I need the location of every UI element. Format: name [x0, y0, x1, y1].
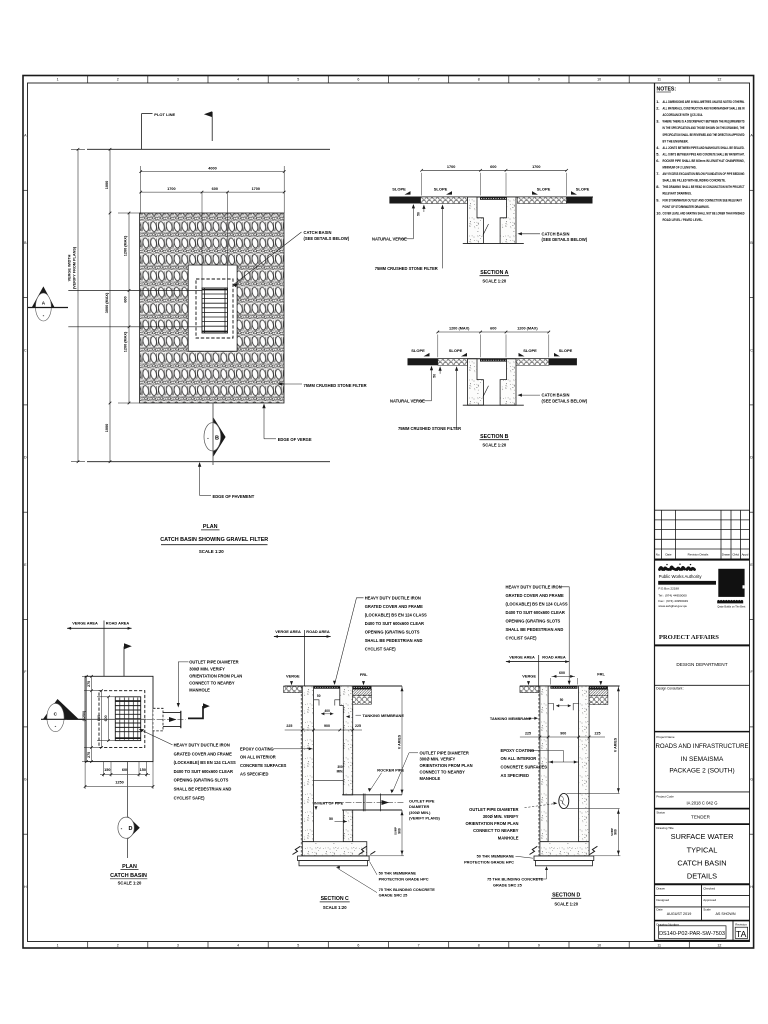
svg-text:300Ø MIN. VERIFY: 300Ø MIN. VERIFY	[483, 814, 519, 819]
svg-text:COVER LEVEL AND GRATING SHALL: COVER LEVEL AND GRATING SHALL NOT BE LOW…	[663, 210, 745, 215]
left dims	[86, 676, 88, 761]
svg-text:Drawn: Drawn	[656, 887, 665, 891]
svg-text:Designed: Designed	[656, 898, 669, 902]
grate	[480, 359, 507, 362]
dim 4000	[141, 171, 285, 173]
svg-text:225: 225	[286, 724, 292, 728]
svg-text:900: 900	[324, 724, 330, 728]
svg-text:75 THK BLINDING CONCRETE: 75 THK BLINDING CONCRETE	[487, 877, 544, 882]
catch basin label	[233, 232, 302, 285]
svg-text:(SEE DETAILS BELOW): (SEE DETAILS BELOW)	[542, 398, 588, 403]
svg-text:GRATED COVER AND FRAME: GRATED COVER AND FRAME	[174, 751, 232, 756]
svg-text:AS SPECIFIED: AS SPECIFIED	[240, 771, 268, 776]
svg-text:OUTLET PIPE DIAMETER: OUTLET PIPE DIAMETER	[420, 750, 469, 755]
svg-text:9: 9	[538, 943, 540, 947]
svg-text:1000: 1000	[105, 181, 109, 189]
catch basin walls	[468, 359, 484, 405]
svg-text:225: 225	[595, 731, 601, 735]
svg-text:Drawn: Drawn	[722, 552, 731, 556]
svg-text:POINT OF STORMWATER DRAWINGS.: POINT OF STORMWATER DRAWINGS.	[663, 204, 710, 209]
svg-text:TYPICAL: TYPICAL	[687, 846, 718, 855]
svg-text:D400 TO SUIT 600x600 CLEAR: D400 TO SUIT 600x600 CLEAR	[174, 769, 233, 774]
svg-text:900: 900	[560, 731, 566, 735]
section A	[372, 165, 593, 284]
section marker D	[127, 762, 129, 858]
road construction block	[353, 686, 372, 689]
svg-text:THIS DRAWING SHALL BE READ IN: THIS DRAWING SHALL BE READ IN CONJUNCTIO…	[663, 184, 745, 189]
svg-text:600: 600	[559, 671, 565, 675]
svg-text:VERGE AREA: VERGE AREA	[72, 621, 98, 626]
svg-text:CONNECT TO NEARBY: CONNECT TO NEARBY	[189, 681, 235, 686]
svg-text:600: 600	[104, 715, 108, 721]
break marks	[293, 846, 301, 854]
section marker A	[32, 286, 55, 307]
dashed clear-opening box	[196, 279, 233, 338]
svg-text:D: D	[750, 456, 753, 460]
svg-text:VERGE AREA: VERGE AREA	[509, 654, 535, 659]
ground line	[520, 685, 620, 687]
corner bracket + flag	[188, 706, 203, 718]
svg-text:(LOCKABLE) BS EN 124 CLASS: (LOCKABLE) BS EN 124 CLASS	[365, 612, 427, 617]
svg-text:8: 8	[478, 943, 480, 947]
svg-text:SECTION B: SECTION B	[480, 434, 508, 440]
svg-text:75 THK BLINDING CONCRETE: 75 THK BLINDING CONCRETE	[379, 887, 436, 892]
svg-text:DETAILS: DETAILS	[687, 872, 717, 881]
svg-text:D400 TO SUIT 600x600 CLEAR: D400 TO SUIT 600x600 CLEAR	[365, 621, 424, 626]
svg-text:C: C	[750, 348, 753, 352]
road edge line top	[87, 148, 330, 150]
svg-text:8: 8	[478, 78, 480, 82]
blinding	[535, 861, 592, 866]
svg-text:2: 2	[117, 78, 119, 82]
grate	[202, 288, 228, 333]
svg-text:GRATED COVER AND FRAME: GRATED COVER AND FRAME	[365, 604, 423, 609]
225/900/225 dim	[520, 736, 605, 738]
svg-text:OPENING (GRATING SLOTS: OPENING (GRATING SLOTS	[506, 619, 561, 624]
svg-text:ORIENTATION FROM PLAN: ORIENTATION FROM PLAN	[420, 763, 473, 768]
svg-text:VERGE WIDTH: VERGE WIDTH	[68, 254, 72, 281]
svg-text:EDGE OF VERGE: EDGE OF VERGE	[278, 437, 312, 442]
svg-text:150: 150	[104, 768, 110, 772]
svg-text:C: C	[24, 348, 27, 352]
outlet pipe (plan)	[153, 708, 163, 731]
75mm crushed stone filter label	[280, 383, 303, 385]
svg-text:12: 12	[717, 78, 721, 82]
svg-text:EPOXY COATING: EPOXY COATING	[501, 748, 535, 753]
svg-text:FOR STORMWATER OUTLET AND CONN: FOR STORMWATER OUTLET AND CONNECTION SEE…	[663, 197, 743, 202]
svg-text:PROTECTION GRADE HPC: PROTECTION GRADE HPC	[464, 859, 514, 864]
svg-text:275: 275	[87, 681, 91, 687]
svg-text:ROAD LEVEL / PAVED LEVEL.: ROAD LEVEL / PAVED LEVEL.	[663, 217, 704, 222]
svg-text:CYCLIST SAFE): CYCLIST SAFE)	[506, 636, 538, 641]
svg-text:3000 (MAX): 3000 (MAX)	[105, 292, 109, 313]
svg-text:Public Works Authority: Public Works Authority	[659, 574, 703, 579]
svg-text:1700: 1700	[167, 187, 175, 191]
ground line	[285, 685, 402, 687]
svg-text:600: 600	[490, 165, 496, 169]
catch basin outer box	[85, 676, 153, 761]
pipe level lines	[567, 792, 620, 794]
svg-text:PLAN: PLAN	[122, 864, 137, 870]
svg-text:7.: 7.	[656, 171, 659, 176]
svg-text:11: 11	[657, 943, 661, 947]
svg-text:CYCLIST SAFE): CYCLIST SAFE)	[365, 647, 397, 652]
leader lines to grate	[68, 290, 202, 292]
svg-text:1700: 1700	[252, 187, 260, 191]
svg-text:Project Code: Project Code	[656, 794, 674, 798]
section marker C	[43, 699, 79, 719]
svg-text:OPENING (GRATING SLOTS: OPENING (GRATING SLOTS	[174, 778, 229, 783]
svg-text:Project Name: Project Name	[656, 735, 675, 739]
crushed stone strips	[438, 359, 468, 366]
svg-text:ROAD AREA: ROAD AREA	[306, 629, 330, 634]
svg-text:50: 50	[416, 212, 420, 216]
svg-text:D: D	[129, 826, 133, 832]
svg-text:DS140-P02-PAR-SW-7503: DS140-P02-PAR-SW-7503	[659, 931, 725, 937]
svg-text:B: B	[215, 435, 219, 441]
svg-text:ALL DIMENSIONS ARE IN MILLIMET: ALL DIMENSIONS ARE IN MILLIMETRES UNLESS…	[663, 99, 745, 104]
svg-text:1: 1	[57, 943, 59, 947]
svg-text:4: 4	[237, 78, 239, 82]
svg-text:WHERE THERE IS A DISCREPANCY B: WHERE THERE IS A DISCREPANCY BETWEEN THE…	[663, 119, 745, 124]
neck steps	[314, 700, 319, 706]
svg-text:ON ALL INTERIOR: ON ALL INTERIOR	[501, 756, 537, 761]
title block	[655, 560, 750, 941]
svg-text:50: 50	[560, 698, 564, 702]
svg-text:50 THK MEMBRANE: 50 THK MEMBRANE	[477, 854, 515, 859]
section A ground line	[389, 196, 593, 198]
dashed opening box	[99, 691, 145, 748]
svg-text:SLOPE: SLOPE	[434, 186, 448, 191]
svg-text:BY THE ENGINEER.: BY THE ENGINEER.	[663, 138, 689, 143]
svg-text:SHALL BE PEDESTRIAN AND: SHALL BE PEDESTRIAN AND	[365, 638, 423, 643]
svg-text:(VERIFY FROM PLANS): (VERIFY FROM PLANS)	[73, 246, 77, 289]
svg-text:3: 3	[177, 78, 179, 82]
svg-text:7: 7	[418, 943, 420, 947]
svg-text:300Ø MIN. VERIFY: 300Ø MIN. VERIFY	[189, 667, 225, 672]
svg-text:ALL JOINTS BETWEEN PIPES AND C: ALL JOINTS BETWEEN PIPES AND CONCRETE SH…	[663, 151, 745, 156]
asphalt bars	[408, 359, 438, 366]
chamber floor line	[314, 780, 344, 782]
section B ground line	[408, 358, 578, 360]
svg-text:CYCLIST SAFE): CYCLIST SAFE)	[174, 795, 206, 800]
left wall	[302, 686, 313, 842]
svg-text:TENDER: TENDER	[691, 815, 711, 820]
bottom slab	[540, 842, 589, 856]
svg-text:SHALL BE PEDESTRIAN AND: SHALL BE PEDESTRIAN AND	[506, 627, 564, 632]
svg-text:9: 9	[538, 78, 540, 82]
svg-text:IA 2018 C 042 G: IA 2018 C 042 G	[687, 800, 718, 805]
svg-text:ROADS AND INFRASTRUCTURE: ROADS AND INFRASTRUCTURE	[656, 743, 750, 750]
right wall with step	[340, 686, 353, 795]
svg-text:HEAVY DUTY DUCTILE IRON: HEAVY DUTY DUCTILE IRON	[365, 595, 421, 600]
bottom dims	[103, 762, 105, 777]
svg-text:10: 10	[597, 78, 601, 82]
dim 1700/600/1700	[141, 191, 285, 193]
svg-text:Design Consultant :: Design Consultant :	[656, 687, 684, 691]
svg-text:MIN.: MIN.	[337, 770, 344, 774]
svg-text:PROTECTION GRADE HPC: PROTECTION GRADE HPC	[379, 876, 429, 881]
notes	[656, 87, 745, 222]
section C cut line through basin	[67, 718, 146, 720]
break marks	[530, 846, 538, 854]
svg-text:6: 6	[357, 78, 359, 82]
svg-text:MANHOLE: MANHOLE	[420, 776, 441, 781]
section B	[390, 327, 588, 448]
svg-text:Date: Date	[656, 908, 663, 912]
svg-text:75MM CRUSHED STONE FILTER: 75MM CRUSHED STONE FILTER	[375, 266, 438, 271]
svg-text:D: D	[24, 456, 27, 460]
225/900/225 dim	[285, 729, 362, 731]
svg-text:275: 275	[87, 752, 91, 758]
600 dim top	[552, 675, 575, 677]
svg-text:10: 10	[597, 943, 601, 947]
svg-text:SHALL BE FILLED WITH BLINDING: SHALL BE FILLED WITH BLINDING CONCRETE.	[663, 178, 726, 183]
svg-text:ANY EXCESS EXCAVATION BELOW FO: ANY EXCESS EXCAVATION BELOW FOUNDATION O…	[663, 171, 745, 176]
svg-text:ROCKER PIPE: ROCKER PIPE	[377, 767, 404, 772]
svg-text:1700: 1700	[532, 165, 540, 169]
svg-text:ORIENTATION FROM PLAN: ORIENTATION FROM PLAN	[465, 821, 518, 826]
revision table	[655, 510, 750, 559]
blinding	[299, 861, 368, 866]
svg-text:1.: 1.	[656, 99, 659, 104]
svg-text:ROAD AREA: ROAD AREA	[106, 621, 130, 626]
svg-text:(SEE DETAILS BELOW): (SEE DETAILS BELOW)	[542, 237, 588, 242]
svg-text:600: 600	[490, 327, 496, 331]
svg-text:IN SEMAISMA: IN SEMAISMA	[681, 756, 724, 763]
svg-text:ROCKER PIPE SHALL BE 600mm IN: ROCKER PIPE SHALL BE 600mm IN LENGTH AT …	[663, 158, 745, 163]
verge stones	[284, 686, 303, 693]
svg-text:SCALE 1:20: SCALE 1:20	[482, 443, 506, 448]
svg-text:600: 600	[212, 187, 218, 191]
svg-text:MANHOLE: MANHOLE	[189, 688, 210, 693]
svg-text:AS SHOWN: AS SHOWN	[715, 912, 735, 916]
svg-text:SUMP: SUMP	[610, 828, 614, 836]
svg-text:EPOXY COATING: EPOXY COATING	[240, 746, 274, 751]
svg-text:FRL: FRL	[360, 672, 368, 677]
svg-text:TA: TA	[736, 929, 747, 939]
verge width dimension	[77, 149, 79, 461]
svg-text:SCALE 1:20: SCALE 1:20	[482, 279, 506, 284]
svg-text:PLOT LINE: PLOT LINE	[154, 112, 175, 117]
svg-text:8.: 8.	[656, 184, 659, 189]
svg-text:INVERT OF PIPE: INVERT OF PIPE	[314, 802, 344, 806]
svg-text:SCALE 1:20: SCALE 1:20	[323, 905, 347, 910]
svg-text:Status: Status	[656, 810, 665, 814]
section marker B with cut line	[212, 403, 214, 465]
catch basin white box	[188, 265, 237, 351]
svg-text:7: 7	[418, 78, 420, 82]
svg-text:SLOPE: SLOPE	[523, 348, 537, 353]
svg-text:300: 300	[337, 765, 343, 769]
asphalt bars	[389, 197, 420, 204]
svg-text:RELEVANT DRAWINGS.: RELEVANT DRAWINGS.	[663, 191, 692, 196]
section D	[464, 584, 620, 906]
svg-text:GRADE SRC 25: GRADE SRC 25	[493, 882, 523, 887]
svg-text:50: 50	[329, 817, 333, 821]
svg-text:4: 4	[237, 943, 239, 947]
svg-text:SLOPE: SLOPE	[576, 186, 590, 191]
svg-text:2.: 2.	[656, 106, 659, 111]
grate grid	[115, 697, 140, 741]
grate	[550, 686, 577, 689]
svg-text:Qatar Builds on The Best: Qatar Builds on The Best	[717, 605, 745, 608]
svg-text:1200 (MAX): 1200 (MAX)	[449, 327, 470, 331]
gravel filter hatch area	[140, 213, 284, 403]
svg-text:TANKING MEMBRANE: TANKING MEMBRANE	[363, 713, 405, 718]
svg-text:V ARIES: V ARIES	[397, 734, 401, 749]
svg-text:50: 50	[433, 374, 437, 378]
svg-text:SECTION C: SECTION C	[321, 896, 349, 902]
grate	[480, 197, 507, 200]
svg-text:Revision: Revision	[735, 922, 747, 926]
svg-text:Tel : (974) 44950000: Tel : (974) 44950000	[658, 593, 687, 597]
svg-text:CATCH BASIN: CATCH BASIN	[542, 393, 570, 398]
svg-text:CATCH BASIN SHOWING GRAVEL FIL: CATCH BASIN SHOWING GRAVEL FILTER	[160, 537, 268, 543]
grate	[314, 686, 340, 689]
left wall	[540, 686, 548, 842]
svg-text:SCALE 1:20: SCALE 1:20	[199, 549, 224, 554]
svg-text:NOTES:: NOTES:	[657, 87, 677, 93]
svg-text:2: 2	[117, 943, 119, 947]
svg-text:Appd: Appd	[742, 552, 749, 556]
svg-text:CATCH BASIN: CATCH BASIN	[110, 873, 147, 879]
svg-text:OPENING (GRATING SLOTS: OPENING (GRATING SLOTS	[365, 630, 420, 635]
svg-text:ORIENTATION FROM PLAN: ORIENTATION FROM PLAN	[189, 674, 242, 679]
svg-text:OUTLET PIPE DIAMETER: OUTLET PIPE DIAMETER	[469, 807, 518, 812]
svg-text:VERGE: VERGE	[286, 674, 300, 679]
svg-text:ACCORDANCE WITH QCS 2014.: ACCORDANCE WITH QCS 2014.	[663, 112, 704, 117]
svg-text:225: 225	[355, 724, 361, 728]
svg-text:SLOPE: SLOPE	[411, 348, 425, 353]
svg-text:GRATED COVER AND FRAME: GRATED COVER AND FRAME	[506, 593, 564, 598]
svg-text:SCALE 1:20: SCALE 1:20	[554, 901, 578, 906]
svg-text:(SEE DETAILS BELOW): (SEE DETAILS BELOW)	[304, 236, 350, 241]
svg-text:1: 1	[57, 78, 59, 82]
plan showing gravel filter (top-left)	[28, 111, 367, 554]
svg-text:5.: 5.	[656, 151, 659, 156]
plan catch basin (bottom-left)	[41, 621, 242, 886]
svg-text:900: 900	[397, 828, 401, 834]
svg-text:SPECIFICATION SHALL BE REVIEWE: SPECIFICATION SHALL BE REVIEWED AND THE …	[663, 132, 745, 137]
svg-text:600: 600	[123, 296, 127, 302]
dim 1000/3000(MAX)/1000	[109, 149, 111, 461]
dim 1200/600/1200	[128, 213, 130, 403]
svg-text:IN THE SPECIFICATION AND THOSE: IN THE SPECIFICATION AND THOSE SHOWN ON …	[663, 125, 745, 130]
svg-text:50 THK MEMBRANE: 50 THK MEMBRANE	[379, 871, 417, 876]
svg-text:1250: 1250	[115, 781, 123, 785]
svg-text:SLOPE: SLOPE	[559, 348, 573, 353]
svg-text:(LOCKABLE) BS EN 124 CLASS: (LOCKABLE) BS EN 124 CLASS	[174, 760, 236, 765]
svg-text:5: 5	[297, 943, 299, 947]
svg-text:H: H	[750, 885, 753, 889]
svg-text:225: 225	[525, 731, 531, 735]
svg-text:9.: 9.	[656, 197, 659, 202]
svg-text:(VERIFY PLANS): (VERIFY PLANS)	[409, 815, 441, 820]
outlet pipe	[342, 794, 402, 796]
svg-text:(LOCKABLE) BS EN 124 CLASS: (LOCKABLE) BS EN 124 CLASS	[506, 601, 568, 606]
svg-text:GRADE SRC 25: GRADE SRC 25	[379, 893, 409, 898]
svg-text:12: 12	[717, 943, 721, 947]
svg-text:www.ashghal.gov.qa: www.ashghal.gov.qa	[658, 604, 686, 608]
svg-text:OUTLET PIPE: OUTLET PIPE	[409, 799, 435, 804]
road construction block right	[589, 686, 608, 689]
road edge line bottom (edge of pavement)	[87, 461, 330, 463]
svg-text:11: 11	[657, 78, 661, 82]
svg-text:PROJECT AFFAIRS: PROJECT AFFAIRS	[659, 634, 719, 641]
svg-text:D400 TO SUIT 600x600 CLEAR: D400 TO SUIT 600x600 CLEAR	[506, 610, 565, 615]
extension lines to grate	[201, 192, 203, 288]
flag symbol	[123, 647, 125, 677]
svg-text:ALL JOINTS BETWEEN PIPES AND M: ALL JOINTS BETWEEN PIPES AND MANHOLES SH…	[663, 145, 745, 150]
svg-text:Approved: Approved	[703, 898, 716, 902]
edge of pavement label	[199, 463, 201, 496]
svg-text:10.: 10.	[656, 210, 661, 215]
membrane	[534, 856, 594, 861]
svg-text:CATCH BASIN: CATCH BASIN	[542, 231, 570, 236]
section C	[240, 595, 473, 910]
svg-text:1700: 1700	[447, 165, 455, 169]
svg-text:5: 5	[297, 78, 299, 82]
svg-text:50: 50	[317, 694, 321, 698]
svg-text:75MM CRUSHED STONE FILTER: 75MM CRUSHED STONE FILTER	[304, 383, 367, 388]
svg-text:6.: 6.	[656, 158, 659, 163]
svg-text:SLOPE: SLOPE	[449, 348, 463, 353]
membrane	[298, 856, 370, 861]
svg-text:SHALL BE PEDESTRIAN AND: SHALL BE PEDESTRIAN AND	[174, 787, 232, 792]
svg-text:Drawing Title: Drawing Title	[656, 826, 674, 830]
svg-text:SCALE 1:20: SCALE 1:20	[118, 880, 142, 885]
svg-text:Fax : (974) 44950049: Fax : (974) 44950049	[658, 599, 688, 603]
svg-text:75MM CRUSHED STONE FILTER: 75MM CRUSHED STONE FILTER	[398, 426, 461, 431]
svg-text:(300Ø MIN.): (300Ø MIN.)	[409, 810, 431, 815]
svg-text:G: G	[24, 778, 27, 782]
svg-text:HEAVY DUTY DUCTILE IRON: HEAVY DUTY DUCTILE IRON	[174, 743, 230, 748]
svg-text:H: H	[24, 885, 27, 889]
svg-text:1200 (MAX): 1200 (MAX)	[123, 235, 127, 256]
svg-text:PACKAGE 2 (SOUTH): PACKAGE 2 (SOUTH)	[669, 768, 734, 775]
plot line label	[141, 114, 143, 150]
svg-text:HEAVY DUTY DUCTILE IRON: HEAVY DUTY DUCTILE IRON	[506, 584, 562, 589]
svg-text:DIAMETER: DIAMETER	[409, 804, 430, 809]
svg-text:OUTLET PIPE DIAMETER: OUTLET PIPE DIAMETER	[189, 660, 238, 665]
svg-text:PLAN: PLAN	[203, 524, 218, 530]
svg-text:900: 900	[614, 829, 618, 835]
verge/road divider line	[103, 621, 105, 763]
svg-text:MANHOLE: MANHOLE	[498, 835, 519, 840]
edge of verge label	[264, 438, 276, 440]
svg-text:900: 900	[97, 715, 101, 721]
catch basin walls	[468, 197, 484, 243]
svg-text:FRL: FRL	[597, 671, 605, 676]
crushed stone strips	[421, 197, 468, 204]
svg-text:P.O.Box 22188: P.O.Box 22188	[658, 587, 679, 591]
svg-text:ALL MATERIALS, CONSTRUCTION AN: ALL MATERIALS, CONSTRUCTION AND WORKMANS…	[663, 106, 745, 111]
svg-text:V ARIES: V ARIES	[614, 737, 618, 752]
svg-text:Checked: Checked	[703, 887, 715, 891]
dimensions	[438, 331, 549, 333]
svg-text:CATCH BASIN: CATCH BASIN	[677, 859, 726, 868]
svg-text:CONCRETE SURFACES: CONCRETE SURFACES	[501, 765, 548, 770]
svg-text:3.: 3.	[656, 119, 659, 124]
svg-text:AUGUST 2019: AUGUST 2019	[667, 912, 692, 916]
svg-text:4.: 4.	[656, 145, 659, 150]
svg-text:150: 150	[140, 768, 146, 772]
svg-text:1200 (MAX): 1200 (MAX)	[123, 331, 127, 352]
svg-text:1200 (MAX): 1200 (MAX)	[517, 327, 538, 331]
svg-text:DESIGN DEPARTMENT: DESIGN DEPARTMENT	[676, 662, 727, 667]
bottom slab	[302, 842, 367, 856]
